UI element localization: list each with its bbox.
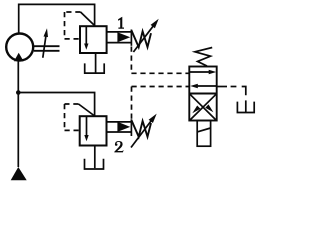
pump flow triangle (filled, apex up) [14,53,24,61]
tank symbol under valve 1 [85,63,105,73]
directional valve cell divider [189,93,216,95]
valve 2 pilot diagonal tap [79,104,95,116]
tank symbol under valve 2 [85,159,104,169]
label 1 [118,17,124,29]
pilot line valve 2 to directional valve (dashed) [132,87,190,120]
valve 1 spring [131,30,151,47]
valve 2 internal down arrow [84,116,88,141]
directional valve return spring [195,48,212,67]
valve 1 pilot dashed loop (from inlet to left side) [65,12,81,39]
valve 1 hydraulic pilot triangle (filled) [117,32,130,42]
valve 1 right channel lines [107,32,132,43]
pipe into right tank [245,100,247,112]
wire: branch to valve 2 inlet [18,93,94,117]
pilot line valve 1 to directional valve (dashed) [131,47,189,74]
valve 1 drain to tank [95,53,97,73]
pump shaft double line [34,46,60,51]
label 2 [114,141,123,152]
pump P1 (variable displacement pump circle) [6,34,33,61]
directional valve U1 body [189,67,216,121]
valve 1 pilot diagonal tap [81,12,95,25]
wire: pump outlet riser to top rail to valve 1 inlet [19,4,95,32]
valve 2 right channel lines [107,122,132,132]
valve 2 adjustment arrow [131,114,157,148]
valve 2 hydraulic pilot triangle (filled) [117,122,130,132]
top cell arrow right [189,70,216,75]
solenoid (rect with diagonal) [197,121,210,147]
valve 2 spring seat bar [130,119,132,136]
valve 1 adjustment arrow [133,19,158,52]
top cell arrow left [190,84,217,89]
pilot drain line to tank (dashed) [231,86,238,88]
valve 2 pilot dashed loop [65,104,80,130]
valve 2 spring [131,120,151,137]
valve 1 spring seat bar [130,30,132,46]
valve 1 internal down arrow [84,26,88,49]
wire: directional valve right port stub [217,86,227,88]
pump variable adjustment arrow [43,28,48,58]
pilot drain corner elbow [242,87,246,96]
bottom cell crossed arrows [190,94,216,120]
wire: pump bottom line down to tank [17,61,19,167]
tank (suction) triangle, filled apex up [11,167,27,180]
tank symbol right [237,102,254,113]
node junction dot [16,90,21,95]
relief valve 2 body [80,116,107,145]
relief valve 1 body [80,26,107,53]
valve 2 drain to tank [94,146,96,169]
